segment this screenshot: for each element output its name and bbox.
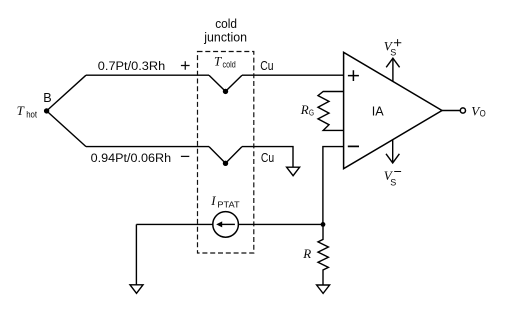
wire top lead horizontal (0.7Pt/0.3Rh) bbox=[86, 74, 209, 76]
ground (bottom Cu lead) bbox=[287, 167, 300, 176]
resistor RG (gain resistor) bbox=[318, 92, 344, 131]
polarity + on top lead bbox=[181, 61, 190, 70]
svg-text:IA: IA bbox=[372, 104, 384, 118]
junction node dot at R top bbox=[321, 222, 326, 227]
supply arrow VS- bbox=[392, 140, 394, 162]
svg-text:cold: cold bbox=[215, 17, 237, 31]
wire IPTAT left to ground drop bbox=[136, 223, 212, 225]
supply arrow VS+ bbox=[392, 59, 394, 82]
wire bottom Cu lead to ground bbox=[242, 147, 293, 168]
wire top Cu lead to IA + input bbox=[242, 74, 344, 76]
pin - of IA bbox=[348, 145, 359, 147]
current source arrow (points left) bbox=[221, 223, 235, 225]
label cold junction bbox=[203, 17, 247, 44]
svg-text:0.94Pt/0.06Rh: 0.94Pt/0.06Rh bbox=[91, 151, 172, 165]
dashed box cold junction bbox=[198, 52, 254, 254]
ground (below R) bbox=[317, 285, 330, 293]
svg-text:0.7Pt/0.3Rh: 0.7Pt/0.3Rh bbox=[98, 59, 166, 73]
thermocouple junction Tcold top (V dip) bbox=[209, 75, 242, 91]
ground (left) bbox=[130, 285, 143, 294]
svg-text:Cu: Cu bbox=[260, 59, 273, 73]
pin + of IA bbox=[348, 70, 359, 81]
output terminal (open circle) bbox=[460, 108, 465, 113]
node B dot bbox=[44, 108, 49, 113]
node dot bottom cold junction bbox=[223, 161, 228, 166]
current source IPTAT circle bbox=[213, 212, 239, 238]
op-amp IA triangle bbox=[344, 52, 442, 168]
node dot top cold junction bbox=[223, 89, 228, 94]
svg-text:junction: junction bbox=[203, 30, 247, 44]
wire IPTAT right to node bbox=[238, 223, 323, 225]
polarity - on bottom lead bbox=[181, 155, 189, 157]
wire B to bottom thermocouple lead bbox=[47, 111, 86, 147]
svg-text:Cu: Cu bbox=[261, 151, 274, 165]
wire B to top thermocouple lead bbox=[47, 75, 86, 111]
wire IA - input down to node bbox=[323, 147, 344, 225]
wire left ground drop bbox=[135, 224, 137, 284]
resistor R bbox=[318, 224, 328, 285]
svg-text:B: B bbox=[43, 91, 51, 105]
wire IA output bbox=[442, 110, 460, 112]
svg-text:R: R bbox=[302, 246, 311, 261]
thermocouple junction Tcold bottom (V dip) bbox=[209, 147, 242, 164]
wire bottom lead horizontal (0.94Pt/0.06Rh) bbox=[86, 146, 209, 148]
